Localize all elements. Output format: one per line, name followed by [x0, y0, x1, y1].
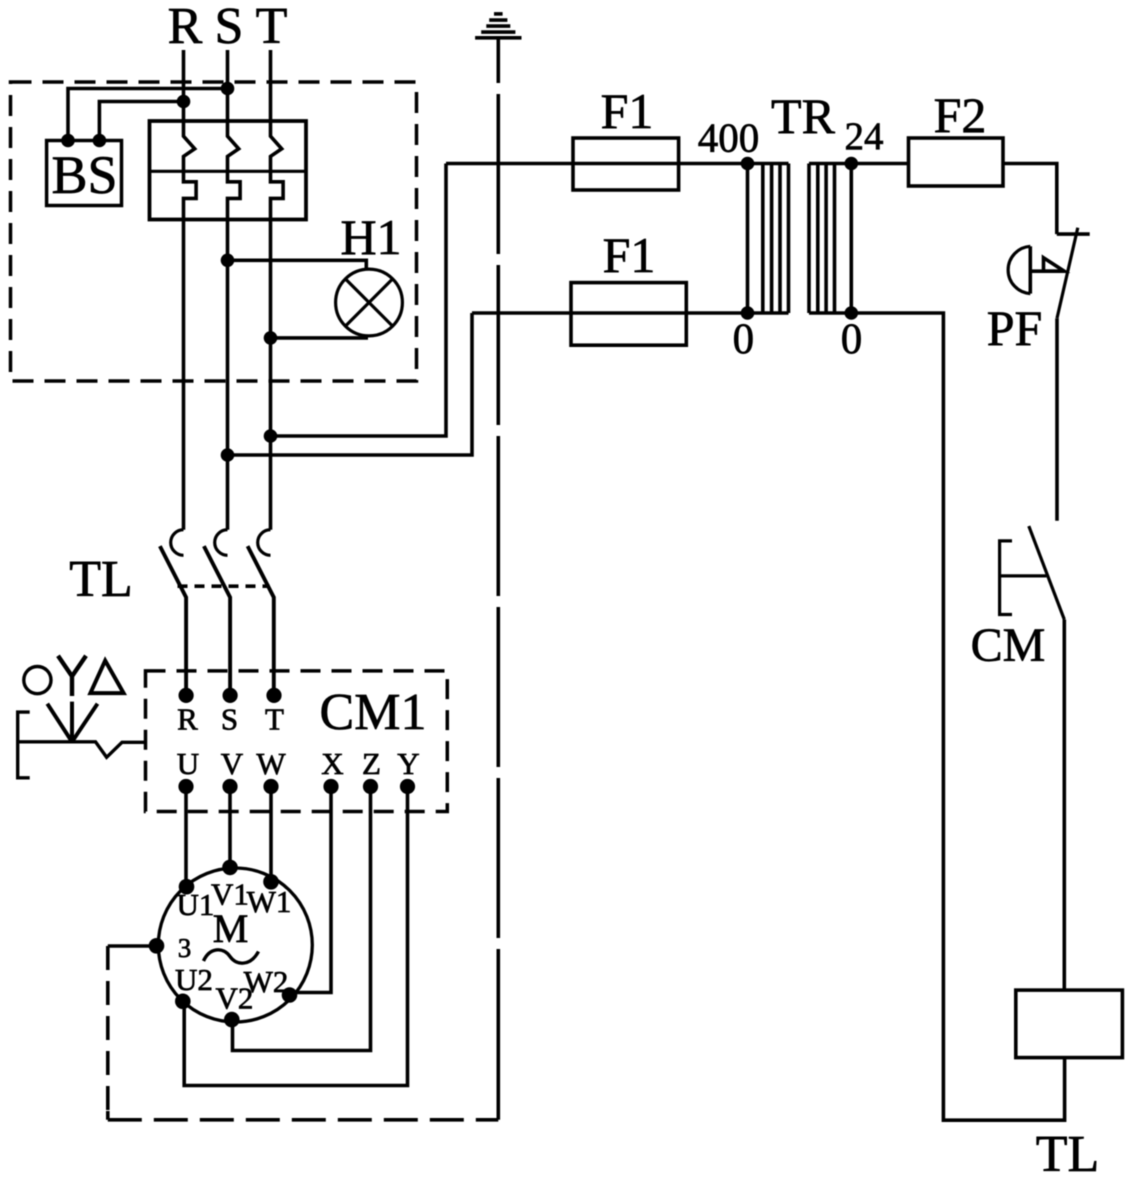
svg-text:BS: BS — [51, 145, 117, 205]
svg-text:W2: W2 — [244, 964, 289, 999]
svg-text:S: S — [215, 0, 244, 55]
svg-text:V: V — [221, 746, 244, 781]
svg-text:CM1: CM1 — [320, 684, 427, 741]
svg-text:U: U — [177, 746, 199, 781]
svg-text:R: R — [177, 702, 198, 737]
svg-text:PF: PF — [987, 300, 1043, 356]
svg-text:U2: U2 — [175, 962, 213, 997]
svg-text:W: W — [256, 746, 286, 781]
svg-text:TL: TL — [1036, 1126, 1100, 1181]
svg-text:0: 0 — [841, 316, 863, 363]
svg-text:S: S — [221, 702, 238, 737]
svg-text:F2: F2 — [934, 87, 987, 143]
svg-text:TR: TR — [771, 88, 836, 144]
svg-text:Y: Y — [397, 746, 419, 781]
svg-text:24: 24 — [845, 115, 884, 158]
svg-text:TL: TL — [69, 551, 133, 608]
svg-text:R: R — [168, 0, 203, 55]
svg-text:M: M — [213, 906, 249, 951]
svg-text:W1: W1 — [247, 884, 292, 919]
svg-text:400: 400 — [698, 115, 760, 161]
svg-text:F1: F1 — [603, 227, 656, 283]
svg-text:U1: U1 — [177, 887, 215, 922]
svg-text:3: 3 — [178, 933, 192, 963]
svg-text:0: 0 — [733, 316, 755, 363]
svg-text:H1: H1 — [340, 209, 401, 265]
svg-text:T: T — [265, 702, 284, 737]
svg-text:CM: CM — [971, 619, 1046, 672]
svg-text:Z: Z — [362, 746, 381, 781]
svg-text:F1: F1 — [601, 83, 654, 139]
svg-text:T: T — [256, 0, 288, 55]
svg-text:X: X — [321, 746, 343, 781]
